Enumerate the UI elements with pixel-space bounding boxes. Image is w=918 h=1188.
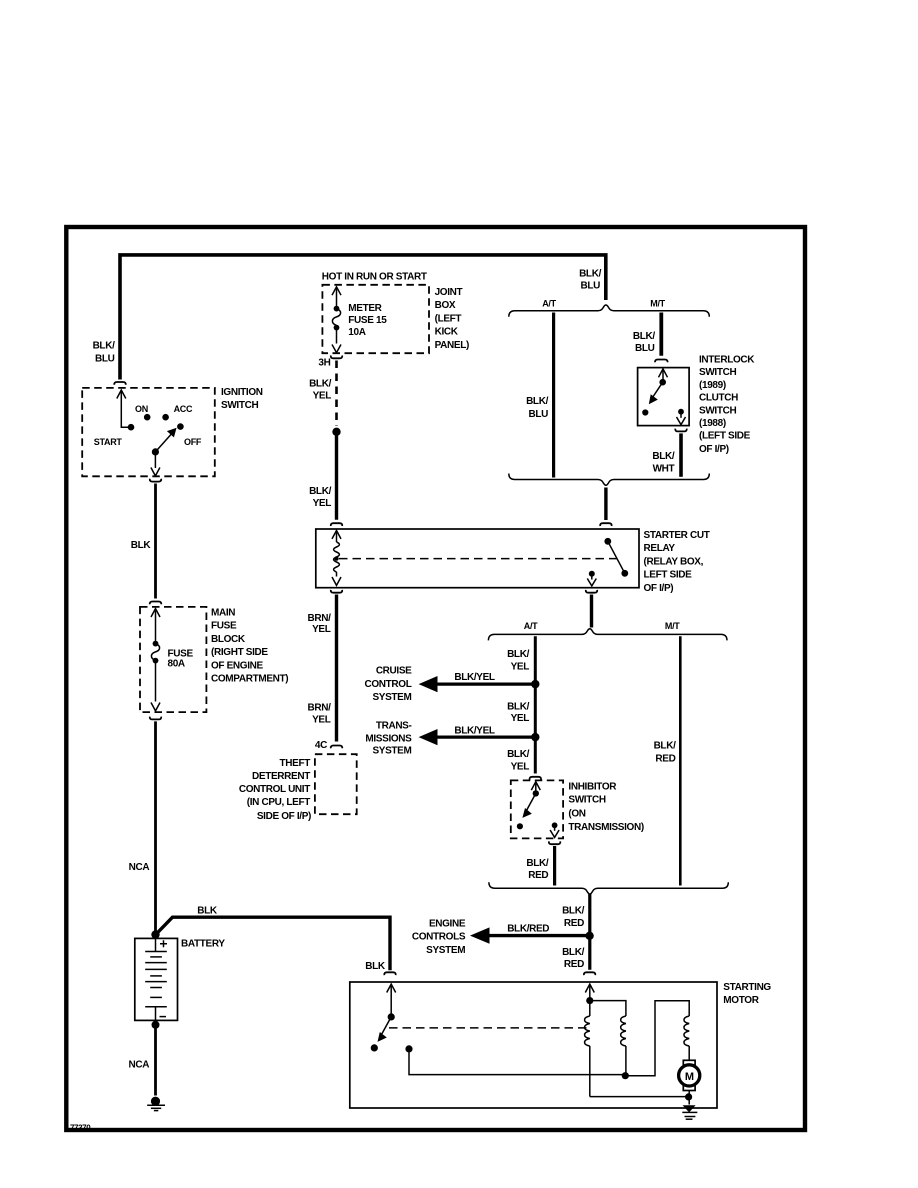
- bracket A/T-M/T merge (closing, lower): [489, 882, 728, 894]
- svg-text:THEFT: THEFT: [280, 758, 311, 769]
- motor M: [683, 1060, 695, 1065]
- coil 3 (field winding): [684, 1016, 689, 1046]
- svg-text:BLU: BLU: [528, 409, 548, 420]
- svg-text:WHT: WHT: [653, 463, 675, 474]
- wire BLK/BLU A/T branch: [552, 313, 555, 478]
- switch arm pivot: [152, 448, 159, 455]
- svg-text:YEL: YEL: [312, 624, 331, 635]
- svg-text:OF I/P): OF I/P): [644, 583, 674, 594]
- battery BATTERY: [135, 938, 178, 1020]
- svg-text:80A: 80A: [168, 659, 185, 670]
- node interlock top contact: [659, 379, 666, 386]
- svg-text:KICK: KICK: [435, 327, 459, 338]
- wire relay to lower bracket: [590, 595, 593, 628]
- wire BLK/RED inhibitor to merge bracket: [553, 846, 556, 886]
- wire BLK/BLU from ignition switch up across top to A/T-M/T bracket: [120, 255, 606, 380]
- connector below interlock switch: [675, 429, 686, 432]
- svg-text:BLK/: BLK/: [652, 451, 675, 462]
- svg-text:BRN/: BRN/: [307, 702, 331, 713]
- svg-text:START: START: [94, 437, 123, 447]
- svg-text:SIDE OF I/P): SIDE OF I/P): [257, 811, 311, 822]
- connector above interlock switch: [655, 360, 667, 363]
- wire arrow into starting motor (right): [585, 984, 594, 992]
- ground (battery): [151, 1097, 160, 1106]
- solenoid internal dashed link: [389, 1027, 588, 1029]
- wire arrow out of relay: [591, 576, 593, 580]
- svg-text:BLK/: BLK/: [507, 649, 530, 660]
- svg-text:YEL: YEL: [511, 662, 530, 673]
- svg-text:M: M: [685, 1071, 694, 1083]
- svg-text:M/T: M/T: [665, 621, 680, 631]
- wire to cruise control system with arrow: [436, 682, 535, 685]
- node inhibitor arm end contact: [517, 823, 523, 829]
- svg-text:SWITCH: SWITCH: [568, 795, 605, 806]
- node relay output contact: [589, 571, 595, 577]
- theft deterrent control unit box: [315, 754, 357, 814]
- svg-text:(LEFT: (LEFT: [435, 313, 462, 324]
- wire NCA battery to ground: [154, 1026, 157, 1096]
- svg-text:OFF: OFF: [184, 437, 202, 447]
- wire merge to starter cut relay: [604, 488, 607, 521]
- node ACC contact: [162, 414, 169, 421]
- svg-text:BLK: BLK: [131, 540, 152, 551]
- svg-text:A/T: A/T: [524, 621, 538, 631]
- svg-text:OF ENGINE: OF ENGINE: [211, 660, 264, 671]
- wire arrow out of interlock switch: [680, 414, 682, 418]
- wire NCA fuse block to battery: [154, 721, 157, 931]
- junction node (coil top): [586, 997, 593, 1004]
- svg-text:TRANSMISSION): TRANSMISSION): [568, 822, 643, 833]
- wire to transmissions system with arrow: [436, 735, 535, 738]
- node switch output contact: [405, 1045, 412, 1052]
- svg-text:RELAY: RELAY: [644, 543, 676, 554]
- svg-text:COMPARTMENT): COMPARTMENT): [211, 674, 288, 685]
- svg-text:(ON: (ON: [568, 808, 585, 819]
- junction node below motor: [685, 1093, 692, 1100]
- svg-text:BRN/: BRN/: [307, 613, 331, 624]
- border frame: [66, 227, 805, 1130]
- main fuse block box: [140, 607, 206, 712]
- svg-text:(LEFT SIDE: (LEFT SIDE: [699, 431, 751, 442]
- svg-text:INTERLOCK: INTERLOCK: [699, 355, 755, 366]
- svg-text:RED: RED: [655, 754, 675, 765]
- svg-text:ON: ON: [135, 404, 148, 414]
- node interlock arm end contact: [642, 409, 648, 415]
- svg-text:BLU: BLU: [580, 281, 600, 292]
- junction node (coil 2 bottom): [622, 1072, 629, 1079]
- wire link to field coil: [625, 1001, 689, 1076]
- svg-text:MAIN: MAIN: [211, 608, 235, 619]
- connector below relay (right): [586, 590, 597, 593]
- wire arrow out of ignition switch: [154, 452, 156, 468]
- svg-text:ACC: ACC: [174, 404, 193, 414]
- interlock switch box: [638, 368, 690, 426]
- fuse FUSE 80A: [151, 609, 160, 617]
- svg-text:INHIBITOR: INHIBITOR: [568, 781, 617, 792]
- wire arrow into inhibitor switch: [531, 782, 540, 790]
- connector below main fuse block: [150, 717, 161, 720]
- svg-text:BLK/: BLK/: [526, 858, 549, 869]
- wire BLK/RED M/T branch: [679, 636, 682, 885]
- svg-text:77370: 77370: [70, 1124, 91, 1133]
- node inhibitor top contact: [533, 790, 539, 796]
- svg-text:BLU: BLU: [635, 343, 655, 354]
- connector above ignition switch: [114, 382, 125, 385]
- svg-text:OF I/P): OF I/P): [699, 444, 729, 455]
- switch arm with arrowhead: [527, 793, 536, 810]
- svg-text:BLK/: BLK/: [562, 906, 585, 917]
- svg-text:LEFT SIDE: LEFT SIDE: [644, 570, 693, 581]
- inhibitor switch box: [511, 780, 563, 838]
- svg-text:SWITCH: SWITCH: [221, 400, 258, 411]
- svg-text:10A: 10A: [348, 327, 365, 338]
- fuse METER FUSE 15 10A: [332, 287, 341, 295]
- wire arrow into starting motor (left): [387, 984, 396, 992]
- node OFF contact: [177, 423, 184, 430]
- svg-text:RED: RED: [564, 918, 584, 929]
- node relay switch top contact: [604, 538, 611, 545]
- svg-text:BLU: BLU: [95, 354, 115, 365]
- node interlock right contact: [678, 409, 684, 415]
- svg-text:YEL: YEL: [511, 762, 530, 773]
- switch arm with arrowhead: [155, 434, 171, 452]
- connector above starter cut relay (right): [600, 523, 611, 526]
- svg-text:SYSTEM: SYSTEM: [372, 692, 411, 703]
- connector 4C above theft deterrent unit: [331, 746, 342, 749]
- svg-text:SYSTEM: SYSTEM: [426, 945, 465, 956]
- relay internal dashed link: [339, 558, 622, 560]
- svg-text:PANEL): PANEL): [435, 340, 469, 351]
- svg-text:ENGINE: ENGINE: [429, 919, 466, 930]
- svg-text:BLK/: BLK/: [507, 701, 530, 712]
- svg-text:NCA: NCA: [129, 862, 150, 873]
- node ON contact: [144, 414, 151, 421]
- svg-text:BLK/YEL: BLK/YEL: [454, 725, 495, 736]
- switch arm with arrowhead: [382, 1017, 392, 1035]
- svg-text:FUSE 15: FUSE 15: [348, 315, 387, 326]
- svg-text:METER: METER: [348, 303, 382, 314]
- coil 1 (pull-in winding): [589, 1001, 591, 1016]
- svg-text:MOTOR: MOTOR: [723, 995, 759, 1006]
- connector 3H below joint box: [331, 356, 342, 359]
- svg-text:CRUISE: CRUISE: [376, 665, 412, 676]
- svg-text:STARTING: STARTING: [723, 982, 771, 993]
- svg-text:BLK/: BLK/: [526, 396, 549, 407]
- svg-text:(IN CPU, LEFT: (IN CPU, LEFT: [247, 797, 310, 808]
- svg-text:SWITCH: SWITCH: [699, 367, 736, 378]
- svg-text:BATTERY: BATTERY: [181, 938, 225, 949]
- svg-text:BLK/: BLK/: [507, 749, 530, 760]
- wire coil1 bottom to motor: [590, 1096, 686, 1098]
- svg-text:BLK/: BLK/: [309, 378, 332, 389]
- svg-text:JOINT: JOINT: [435, 287, 463, 298]
- wire motor to ground: [688, 1091, 690, 1105]
- svg-text:BLK/: BLK/: [93, 340, 116, 351]
- svg-text:TRANS-: TRANS-: [376, 720, 412, 731]
- connector below relay (left): [331, 590, 342, 593]
- svg-text:(RIGHT SIDE: (RIGHT SIDE: [211, 647, 268, 658]
- svg-text:FUSE: FUSE: [211, 621, 237, 632]
- svg-text:DETERRENT: DETERRENT: [252, 771, 310, 782]
- svg-text:(1988): (1988): [699, 418, 726, 429]
- starter cut relay box: [316, 529, 639, 588]
- svg-text:YEL: YEL: [312, 714, 331, 725]
- junction node: [332, 428, 340, 436]
- wire arrow into ignition switch: [117, 390, 126, 399]
- svg-text:(1989): (1989): [699, 380, 726, 391]
- node inhibitor right contact: [552, 822, 558, 828]
- svg-text:CONTROLS: CONTROLS: [412, 932, 466, 943]
- connector above main fuse block: [150, 602, 161, 605]
- junction node (engine controls tap): [585, 932, 593, 940]
- svg-text:BLK/: BLK/: [579, 268, 602, 279]
- ground (starting motor): [683, 1105, 696, 1112]
- wire BLK/YEL dashed segment: [335, 361, 338, 427]
- svg-text:SWITCH: SWITCH: [699, 405, 736, 416]
- wire BRN/YEL relay to theft deterrent unit: [335, 595, 338, 742]
- wire BLK/YEL to starter cut relay: [335, 432, 338, 520]
- connector below inhibitor switch: [549, 841, 560, 844]
- relay coil with arrows: [332, 531, 341, 539]
- svg-text:A/T: A/T: [542, 299, 556, 309]
- wire to engine controls system with arrow: [488, 934, 590, 937]
- node START contact: [128, 424, 135, 431]
- connector above starter cut relay (left): [331, 523, 342, 526]
- ignition switch box: [82, 388, 215, 476]
- node motor switch top contact: [388, 1013, 395, 1020]
- svg-text:CONTROL UNIT: CONTROL UNIT: [239, 784, 310, 795]
- junction battery positive node: [151, 930, 159, 938]
- wire arrow out of inhibitor switch: [554, 828, 556, 831]
- wire BLK/YEL A/T branch: [534, 636, 537, 773]
- svg-text:(RELAY BOX,: (RELAY BOX,: [644, 556, 704, 567]
- svg-text:BLK/: BLK/: [562, 947, 585, 958]
- svg-text:YEL: YEL: [313, 391, 332, 402]
- svg-text:BLK: BLK: [365, 961, 386, 972]
- svg-text:BLK/: BLK/: [309, 486, 332, 497]
- bracket A/T-M/T (opening): [509, 305, 710, 317]
- coil 2 (hold-in winding): [621, 1016, 626, 1046]
- svg-text:BLK: BLK: [197, 906, 218, 917]
- junction node (transmissions tap): [531, 733, 539, 741]
- wire switch to solenoid coils: [409, 1049, 622, 1075]
- svg-text:MISSIONS: MISSIONS: [365, 734, 412, 745]
- svg-text:BLK/: BLK/: [654, 741, 677, 752]
- svg-text:NCA: NCA: [129, 1059, 150, 1070]
- svg-text:BLK/YEL: BLK/YEL: [454, 672, 495, 683]
- svg-text:IGNITION: IGNITION: [221, 387, 263, 398]
- switch arm with arrowhead: [653, 382, 663, 397]
- svg-text:BLK/RED: BLK/RED: [507, 924, 549, 935]
- svg-text:SYSTEM: SYSTEM: [372, 745, 411, 756]
- wire arrow into interlock switch: [659, 369, 668, 377]
- node motor switch arm end: [371, 1044, 378, 1051]
- wire BLK ignition to main fuse block: [154, 484, 157, 599]
- wire BLK battery to starting motor: [157, 917, 390, 970]
- svg-text:M/T: M/T: [650, 299, 665, 309]
- svg-text:CLUTCH: CLUTCH: [699, 393, 738, 404]
- joint box (dashed): [322, 285, 429, 353]
- connector above starting motor (left): [384, 972, 395, 975]
- starting motor box: [350, 982, 717, 1108]
- connector below ignition switch: [150, 479, 161, 482]
- svg-text:BLOCK: BLOCK: [211, 634, 246, 645]
- svg-text:HOT IN RUN OR START: HOT IN RUN OR START: [322, 271, 427, 282]
- svg-text:STARTER CUT: STARTER CUT: [644, 530, 710, 541]
- connector above inhibitor switch: [530, 777, 541, 780]
- bracket A/T-M/T (opening, lower): [488, 629, 727, 641]
- svg-text:YEL: YEL: [511, 713, 530, 724]
- svg-text:YEL: YEL: [313, 498, 332, 509]
- wire coil top link: [590, 1001, 626, 1016]
- svg-text:RED: RED: [528, 870, 548, 881]
- wire BLK/WHT: [679, 433, 683, 476]
- relay switch arm: [608, 541, 625, 573]
- svg-text:BLK/: BLK/: [633, 331, 656, 342]
- wire BLK/BLU M/T branch: [659, 313, 663, 356]
- svg-text:4C: 4C: [315, 740, 327, 751]
- svg-text:BOX: BOX: [435, 300, 456, 311]
- junction node (cruise control tap): [531, 680, 539, 688]
- svg-text:3H: 3H: [318, 357, 330, 368]
- svg-text:CONTROL: CONTROL: [365, 679, 412, 690]
- junction battery negative node: [152, 1021, 160, 1029]
- svg-text:RED: RED: [564, 959, 584, 970]
- wire BLK/RED bracket to starting motor: [588, 894, 591, 970]
- node relay arm end: [621, 570, 628, 577]
- bracket A/T-M/T merge (closing): [509, 474, 710, 486]
- connector above starting motor (right): [584, 972, 595, 975]
